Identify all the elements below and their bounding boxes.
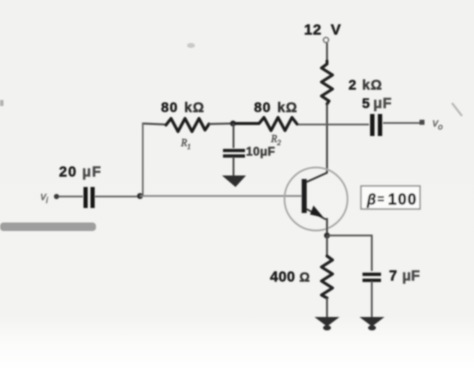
node vo output terminal [420,118,444,132]
node vi input terminal [41,191,60,205]
wire emitter node to RE [326,236,328,257]
resistor RE 400 Ohm [270,256,333,298]
node B1 junction dot [230,121,236,127]
resistor RC 2 kOhm [322,61,383,104]
svg-text:2kΩ: 2kΩ [349,77,383,93]
wire left bias drop [142,123,144,196]
wire top bias rail left segment [142,124,166,125]
scan artifact dot top [187,43,195,48]
svg-text:7μF: 7μF [389,269,420,285]
wire emitter node to bypass branch [327,236,372,272]
capacitor C-out 5 uF [362,95,392,136]
wire emitter down [326,218,328,236]
resistor R1 80 kOhm [161,99,209,151]
wire C2 to ground [233,157,235,176]
node A junction dot [137,193,143,199]
wire R1 to node B1 [209,123,233,126]
wire CE to ground [371,281,373,318]
annotation box beta=100 [361,186,420,209]
capacitor CE 7 uF [363,269,420,285]
capacitor C2 10 uF [223,145,275,159]
wire RE to ground [326,298,328,318]
svg-text:10μF: 10μF [246,145,275,159]
node VCC supply terminal [304,22,341,43]
wire vi to C1 [59,196,83,198]
wire RC bottom to collector node [326,104,328,173]
scan artifact smudge bottom left [0,223,96,232]
wire node B1 down to C2 [233,124,235,149]
wire C1 to node A [95,196,139,198]
ground below C2 [222,176,246,188]
node E junction dot [324,233,330,239]
svg-text:β: β [366,193,376,209]
ground below CE [360,317,385,330]
wire output node horizontal [297,124,369,126]
wire VCC to RC top [326,43,328,61]
svg-text:400Ω: 400Ω [270,270,310,286]
scan artifact streak right edge [452,103,462,116]
transistor Q1 [285,168,348,231]
wire node A to base [140,195,302,197]
wire 5uF to vo terminal [383,122,420,124]
svg-text:100: 100 [388,192,417,209]
svg-text:5μF: 5μF [362,95,392,112]
resistor R2 80 kOhm [233,99,298,147]
capacitor C1 20 uF [59,165,102,209]
svg-text:=: = [378,194,385,206]
ground below RE [315,317,340,330]
scan artifact tick left edge [0,100,4,106]
